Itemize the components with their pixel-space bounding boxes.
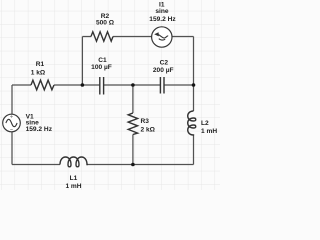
svg-text:159.2 Hz: 159.2 Hz	[149, 16, 176, 23]
svg-text:1 mH: 1 mH	[65, 183, 81, 190]
svg-text:2 kΩ: 2 kΩ	[141, 126, 156, 133]
svg-text:R3: R3	[141, 118, 150, 125]
svg-text:500 Ω: 500 Ω	[96, 19, 115, 26]
svg-text:C1: C1	[98, 57, 107, 64]
svg-text:200 µF: 200 µF	[153, 67, 174, 74]
svg-text:R1: R1	[36, 61, 45, 68]
svg-text:1 kΩ: 1 kΩ	[31, 70, 46, 77]
svg-text:159.2 Hz: 159.2 Hz	[26, 126, 53, 133]
svg-text:L2: L2	[201, 120, 209, 127]
svg-text:100 µF: 100 µF	[91, 64, 112, 71]
svg-text:sine: sine	[155, 8, 169, 15]
svg-text:L1: L1	[70, 175, 78, 182]
svg-text:1 mH: 1 mH	[201, 128, 217, 135]
svg-text:C2: C2	[160, 59, 169, 66]
